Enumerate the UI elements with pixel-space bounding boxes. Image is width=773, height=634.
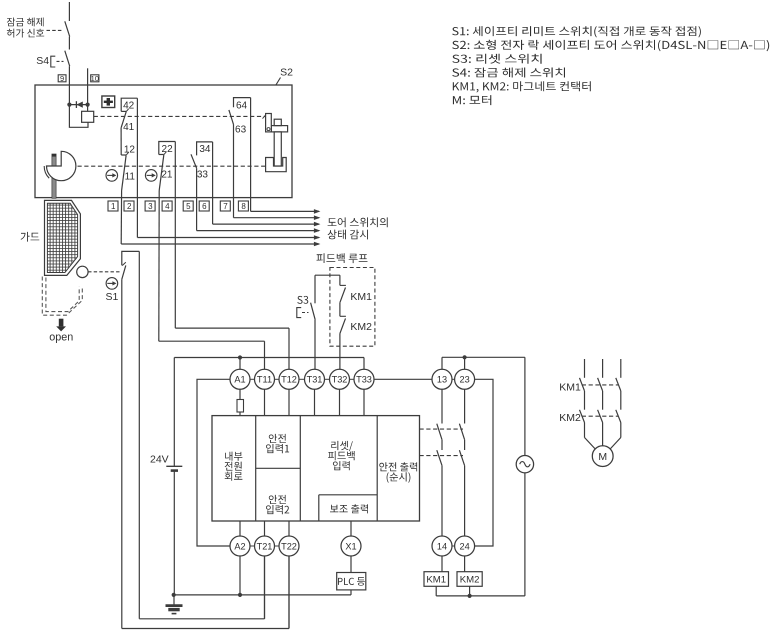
svg-text:12: 12: [124, 144, 136, 155]
svg-text:KM2: KM2: [460, 574, 480, 585]
svg-text:S4: S4: [36, 55, 49, 67]
svg-text:T22: T22: [281, 541, 297, 551]
svg-text:A1: A1: [234, 375, 245, 385]
svg-text:X1: X1: [345, 541, 356, 551]
svg-text:11: 11: [125, 172, 136, 183]
svg-text:14: 14: [437, 541, 447, 551]
svg-text:2: 2: [127, 202, 132, 211]
svg-text:6: 6: [202, 202, 207, 211]
svg-text:5: 5: [186, 202, 191, 211]
svg-text:T21: T21: [257, 541, 273, 551]
svg-text:7: 7: [223, 202, 228, 211]
svg-text:1: 1: [111, 202, 116, 211]
svg-text:24: 24: [459, 541, 469, 551]
svg-text:34: 34: [199, 144, 211, 155]
svg-text:21: 21: [161, 170, 173, 181]
svg-text:KM2: KM2: [350, 321, 372, 333]
svg-text:64: 64: [236, 100, 248, 111]
svg-text:42: 42: [123, 100, 135, 111]
svg-text:KM1: KM1: [426, 574, 446, 585]
svg-text:KM1: KM1: [350, 291, 372, 303]
svg-text:S2: S2: [280, 67, 293, 79]
svg-text:T31: T31: [307, 375, 323, 385]
svg-text:8: 8: [241, 202, 246, 211]
svg-text:24V: 24V: [150, 454, 169, 466]
svg-text:4: 4: [165, 202, 170, 211]
svg-text:10: 10: [91, 74, 99, 83]
svg-text:open: open: [49, 331, 73, 343]
svg-text:T12: T12: [281, 375, 297, 385]
svg-text:S1: S1: [106, 291, 119, 303]
svg-text:M: M: [598, 451, 607, 463]
svg-text:41: 41: [123, 122, 135, 133]
svg-text:9: 9: [60, 74, 64, 83]
svg-text:33: 33: [197, 170, 209, 181]
svg-text:63: 63: [235, 124, 247, 135]
svg-text:3: 3: [148, 202, 153, 211]
svg-text:T32: T32: [332, 375, 348, 385]
svg-text:A2: A2: [234, 541, 245, 551]
svg-text:23: 23: [459, 375, 469, 385]
svg-text:T33: T33: [356, 375, 372, 385]
svg-text:13: 13: [437, 375, 447, 385]
svg-text:T11: T11: [257, 375, 272, 385]
svg-text:22: 22: [162, 144, 174, 155]
svg-text:KM1: KM1: [559, 381, 581, 393]
svg-text:KM2: KM2: [559, 412, 581, 424]
